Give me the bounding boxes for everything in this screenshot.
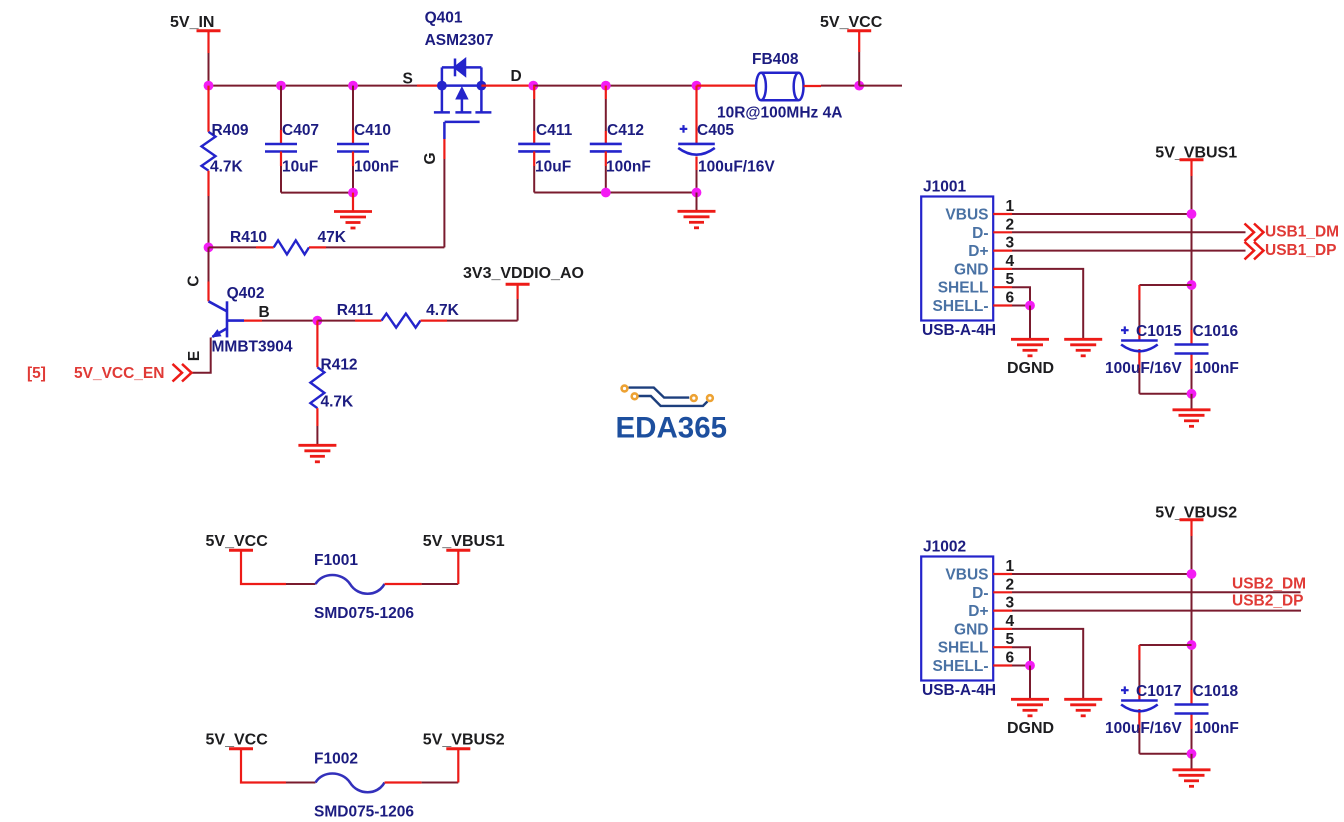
svg-text:USB1_DP: USB1_DP: [1265, 242, 1337, 259]
svg-text:C1015: C1015: [1136, 323, 1182, 340]
ground under C1018: [1173, 770, 1211, 787]
svg-text:Q402: Q402: [227, 285, 265, 302]
J1001 pin numbers 1-6: [1006, 198, 1015, 307]
logo pad B: [632, 393, 638, 399]
svg-text:5V_IN: 5V_IN: [170, 14, 214, 31]
node junction 5V_VBUS2 pin1: [1187, 569, 1197, 579]
wire 5V_VBUS1 vertical: [1191, 176, 1193, 394]
power tick 5V_VBUS1: [446, 549, 470, 552]
svg-text:10uF: 10uF: [535, 159, 571, 176]
wire C412 top: [605, 86, 607, 99]
Q401 source node dot: [437, 81, 447, 91]
svg-text:F1002: F1002: [314, 751, 358, 768]
svg-text:100uF/16V: 100uF/16V: [1105, 720, 1182, 737]
svg-text:4: 4: [1006, 613, 1015, 630]
svg-text:C410: C410: [354, 122, 391, 139]
wire 5V_VBUS2 vertical: [1191, 536, 1193, 754]
wire R410 right to gate: [309, 246, 326, 248]
node junction C407: [276, 81, 286, 91]
wire branch to C1017: [1139, 644, 1191, 646]
wire bottom rail C1017-C1018: [1138, 728, 1140, 754]
svg-text:100nF: 100nF: [1194, 720, 1239, 737]
svg-text:6: 6: [1006, 650, 1015, 667]
wire J1001 pin6 SHELL-: [1012, 305, 1030, 307]
capacitor C412: [590, 144, 622, 152]
wire FB408 right: [804, 85, 821, 87]
svg-text:DGND: DGND: [1007, 720, 1054, 737]
logo trace 1: [629, 388, 690, 398]
svg-text:J1001: J1001: [923, 179, 966, 196]
node junction 5V_IN/R409: [204, 81, 214, 91]
svg-text:1: 1: [1006, 198, 1015, 215]
wire R409 bottom: [207, 171, 209, 196]
wire J1002 pin3 D+: [1012, 610, 1301, 612]
capacitor C411: [518, 144, 550, 152]
J1002 pin numbers 1-6: [1006, 558, 1015, 667]
logo pad D: [707, 395, 713, 401]
wire C410 bottom: [352, 152, 354, 167]
svg-text:2: 2: [1006, 216, 1015, 233]
capacitor C410: [337, 144, 369, 152]
svg-text:SHELL: SHELL: [938, 640, 989, 657]
svg-text:DGND: DGND: [1007, 360, 1054, 377]
svg-text:R410: R410: [230, 229, 267, 246]
wire to FB408: [697, 84, 757, 86]
svg-text:B: B: [259, 304, 270, 321]
node junction C412: [601, 81, 611, 91]
svg-text:USB1_DM: USB1_DM: [1265, 224, 1339, 241]
svg-text:5V_VBUS1: 5V_VBUS1: [423, 533, 505, 550]
wire ground stem C410: [352, 193, 354, 211]
capacitor C1016: [1175, 345, 1209, 354]
wire C412 bottom: [605, 151, 607, 166]
wire J1002 shell ground stem: [1029, 666, 1031, 699]
wire base: [244, 320, 262, 322]
wire R409 top: [207, 86, 209, 132]
node junction C411: [528, 81, 538, 91]
ground under C405: [678, 211, 716, 228]
svg-text:R409: R409: [212, 122, 249, 139]
svg-text:C412: C412: [607, 122, 644, 139]
wire J1002 pin6 SHELL-: [1012, 665, 1030, 667]
ground DGND J1001: [1011, 339, 1049, 356]
node junction 5V_VBUS2 branch: [1187, 640, 1197, 650]
svg-text:100uF/16V: 100uF/16V: [1105, 360, 1182, 377]
node junction 5V_VCC: [854, 81, 864, 91]
svg-text:VBUS: VBUS: [945, 207, 988, 224]
svg-text:C: C: [186, 275, 203, 286]
wire bottom rail C1015-C1016: [1138, 368, 1140, 394]
svg-text:100nF: 100nF: [606, 159, 651, 176]
svg-text:EDA365: EDA365: [616, 412, 728, 445]
J1002 pin names: [933, 567, 989, 676]
logo pad C: [691, 395, 697, 401]
capacitor C407: [265, 144, 297, 152]
svg-text:USB-A-4H: USB-A-4H: [922, 682, 996, 699]
svg-text:5V_VCC: 5V_VCC: [206, 732, 269, 749]
svg-text:SMD075-1206: SMD075-1206: [314, 804, 414, 821]
svg-text:5V_VCC_EN: 5V_VCC_EN: [74, 365, 164, 382]
svg-text:R412: R412: [321, 357, 358, 374]
svg-text:2: 2: [1006, 576, 1015, 593]
C1015 polarity +: [1121, 326, 1129, 334]
svg-text:D-: D-: [972, 585, 988, 602]
C1017 polarity +: [1121, 686, 1129, 694]
svg-text:5V_VCC: 5V_VCC: [820, 14, 883, 31]
svg-text:E: E: [186, 351, 203, 361]
node junction 5V_VBUS1 pin1: [1187, 209, 1197, 219]
chevron 5V_VCC_EN: [173, 364, 192, 382]
wire ground stem 5V_VBUS1: [1191, 394, 1193, 410]
svg-text:6: 6: [1006, 290, 1015, 307]
logo trace 2: [638, 396, 708, 406]
svg-text:[5]: [5]: [27, 365, 46, 382]
power tick 5V_VCC top: [847, 29, 871, 32]
svg-text:3: 3: [1006, 595, 1015, 612]
wire C407 top: [280, 86, 282, 130]
wire up to 3V3_VDDIO_AO: [517, 299, 519, 321]
wire J1001 pin2 D-: [1012, 231, 1246, 233]
J1002 pin stubs: [993, 574, 1012, 666]
fuse F1001: [316, 575, 385, 594]
node junction rail C412: [601, 188, 611, 198]
svg-text:C411: C411: [536, 122, 573, 139]
wire to fuse F1002: [286, 782, 316, 784]
wire emitter: [192, 338, 211, 373]
wire C405 top: [695, 86, 697, 144]
node junction R410: [204, 243, 214, 253]
wire J1001 pin5 SHELL: [1012, 287, 1030, 305]
transistor Q401 P-MOSFET body: [434, 59, 492, 122]
svg-text:4: 4: [1006, 253, 1015, 270]
wire ground rail C407-C410: [281, 192, 353, 194]
wire fuse right F1001: [385, 583, 422, 585]
capacitor C1017 polarized: [1121, 701, 1158, 712]
wire bus end: [859, 85, 902, 87]
logo pad A: [622, 386, 628, 392]
wire R411 right: [421, 320, 448, 322]
power tick 5V_VCC F1002: [229, 747, 253, 750]
wire ground rail C411-C405: [534, 192, 696, 194]
J1001 pin stubs: [993, 214, 1012, 306]
svg-text:100uF/16V: 100uF/16V: [698, 159, 775, 176]
power tick 5V_VBUS2: [446, 747, 470, 750]
node junction base/R411/R412: [313, 316, 323, 326]
svg-text:5: 5: [1006, 631, 1015, 648]
wire J1001 pin3 D+: [1012, 250, 1246, 252]
wire 5V_VCC down F1002: [241, 749, 286, 783]
svg-text:USB2_DP: USB2_DP: [1232, 593, 1304, 610]
svg-text:USB-A-4H: USB-A-4H: [922, 322, 996, 339]
transistor Q402 NPN: [209, 301, 245, 337]
capacitor C405 polarized: [678, 144, 715, 155]
svg-text:S: S: [403, 71, 413, 88]
svg-text:C1016: C1016: [1193, 323, 1239, 340]
power tick 5V_IN: [197, 29, 221, 32]
svg-text:GND: GND: [954, 621, 988, 638]
connector J1001 body USB-A-4H: [921, 197, 993, 321]
svg-text:3V3_VDDIO_AO: 3V3_VDDIO_AO: [463, 265, 584, 282]
svg-text:4.7K: 4.7K: [210, 159, 244, 176]
capacitor C1018: [1175, 705, 1209, 714]
wire C405 bottom: [695, 157, 697, 171]
node junction rail C405: [692, 188, 702, 198]
ground J1002 pin4: [1064, 699, 1102, 716]
wire fuse right F1002: [385, 781, 422, 783]
svg-text:4.7K: 4.7K: [426, 302, 460, 319]
node junction 5V_VBUS1 branch: [1187, 280, 1197, 290]
power tick 5V_VCC F1001: [229, 549, 253, 552]
power tick 5V_VBUS2: [1180, 518, 1204, 521]
chevron USB1_DP: [1245, 242, 1264, 260]
wire C407 bottom: [280, 152, 282, 167]
wire R410 left: [209, 246, 257, 248]
wire 5V_VCC down: [858, 31, 860, 52]
power tick 3V3_VDDIO_AO: [506, 283, 530, 286]
ground J1001 pin4: [1064, 339, 1102, 356]
svg-text:1: 1: [1006, 558, 1015, 575]
svg-text:FB408: FB408: [752, 51, 799, 68]
resistor R410: [274, 240, 309, 254]
wire ground stem 5V_VBUS2: [1191, 754, 1193, 770]
wire J1001 pin4 GND: [1012, 269, 1083, 339]
power tick 5V_VBUS1: [1180, 158, 1204, 161]
svg-text:C405: C405: [697, 122, 734, 139]
svg-text:F1001: F1001: [314, 552, 358, 569]
node junction C410: [348, 81, 358, 91]
node junction C1016 ground: [1187, 389, 1197, 399]
svg-text:47K: 47K: [318, 229, 347, 246]
svg-text:Q401: Q401: [425, 10, 463, 27]
wire J1002 pin2 D-: [1012, 591, 1301, 593]
ground under R412: [298, 445, 336, 462]
wire branch to C1015: [1139, 284, 1191, 286]
fuse F1002: [316, 774, 385, 793]
svg-text:C1017: C1017: [1136, 683, 1182, 700]
ferrite bead FB408: [756, 73, 803, 100]
chevron USB1_DM: [1245, 224, 1264, 242]
svg-text:5: 5: [1006, 271, 1015, 288]
node junction J1001 shell: [1025, 301, 1035, 311]
svg-text:10R@100MHz 4A: 10R@100MHz 4A: [717, 105, 842, 122]
svg-text:4.7K: 4.7K: [321, 394, 355, 411]
wire R411 left: [317, 320, 355, 322]
wire 5V_VCC down F1001: [241, 550, 286, 584]
wire collector: [208, 247, 210, 281]
svg-text:C407: C407: [282, 122, 319, 139]
svg-text:100nF: 100nF: [1194, 360, 1239, 377]
svg-text:SHELL: SHELL: [938, 280, 989, 297]
wire R412 top: [316, 321, 318, 368]
node junction C1018 ground: [1187, 749, 1197, 759]
Q401 drain node dot: [477, 81, 487, 91]
svg-text:GND: GND: [954, 261, 988, 278]
svg-text:D-: D-: [972, 225, 988, 242]
wire C411 bottom: [533, 151, 535, 166]
wire drain stub: [481, 84, 533, 86]
wire J1002 pin4 GND: [1012, 629, 1083, 699]
svg-text:5V_VCC: 5V_VCC: [206, 533, 269, 550]
wire up to 5V_VBUS1: [457, 550, 459, 584]
wire ground stem C405: [696, 193, 698, 211]
wire J1002 pin5 SHELL: [1012, 647, 1030, 665]
svg-text:100nF: 100nF: [354, 159, 399, 176]
wire 5V_IN down: [207, 31, 209, 53]
svg-text:3: 3: [1006, 235, 1015, 252]
wire J1002 pin1 VBUS: [1012, 573, 1192, 575]
svg-text:SHELL-: SHELL-: [933, 658, 989, 675]
wire bus D rail: [533, 85, 606, 87]
svg-text:SHELL-: SHELL-: [933, 298, 989, 315]
node junction C410 ground: [348, 188, 358, 198]
svg-text:G: G: [422, 152, 439, 164]
resistor R411: [382, 314, 421, 328]
node junction C405: [692, 81, 702, 91]
capacitor C1015 polarized: [1121, 341, 1158, 352]
svg-text:MMBT3904: MMBT3904: [212, 339, 293, 356]
wire J1001 shell ground stem: [1029, 306, 1031, 339]
C405 polarity +: [680, 125, 688, 133]
svg-text:ASM2307: ASM2307: [425, 32, 494, 49]
svg-text:D: D: [511, 68, 522, 85]
ground DGND J1002: [1011, 699, 1049, 716]
resistor R412: [310, 367, 324, 408]
wire C411 top: [533, 86, 535, 99]
svg-text:SMD075-1206: SMD075-1206: [314, 605, 414, 622]
ground under C1016: [1173, 410, 1211, 427]
node junction J1002 shell: [1025, 661, 1035, 671]
svg-text:USB2_DM: USB2_DM: [1232, 576, 1306, 593]
connector J1002 body USB-A-4H: [921, 557, 993, 681]
svg-text:R411: R411: [337, 302, 374, 319]
svg-text:J1002: J1002: [923, 539, 966, 556]
wire R412 bottom: [316, 408, 318, 426]
wire top bus 5V_IN rail: [209, 85, 418, 87]
wire up to 5V_VBUS2: [457, 749, 459, 783]
svg-text:10uF: 10uF: [282, 159, 318, 176]
wire gate down: [443, 122, 446, 139]
svg-text:5V_VBUS2: 5V_VBUS2: [423, 732, 505, 749]
wire to fuse F1001: [286, 583, 316, 585]
wire C410 top: [352, 86, 354, 130]
svg-text:D+: D+: [968, 243, 988, 260]
svg-text:D+: D+: [968, 603, 988, 620]
resistor R409: [202, 132, 216, 171]
J1001 pin names: [933, 207, 989, 316]
wire J1001 pin1 VBUS: [1012, 213, 1192, 215]
ground under C410: [334, 212, 372, 229]
svg-text:VBUS: VBUS: [945, 567, 988, 584]
svg-text:C1018: C1018: [1193, 683, 1239, 700]
